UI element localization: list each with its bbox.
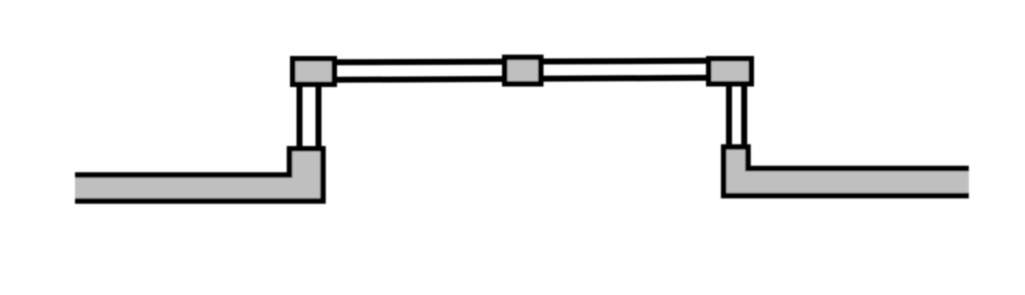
beam top rail [334, 61, 709, 63]
left post front line [297, 84, 303, 150]
left top bracket block [293, 59, 335, 85]
right post front line [726, 83, 732, 149]
center coupler block [505, 57, 541, 83]
beam bottom rail [334, 78, 709, 80]
right support arm with step [724, 147, 969, 196]
right top bracket block [709, 59, 752, 84]
left support arm with step [75, 149, 323, 201]
left post rear line [316, 84, 322, 150]
right post rear line [741, 83, 747, 149]
